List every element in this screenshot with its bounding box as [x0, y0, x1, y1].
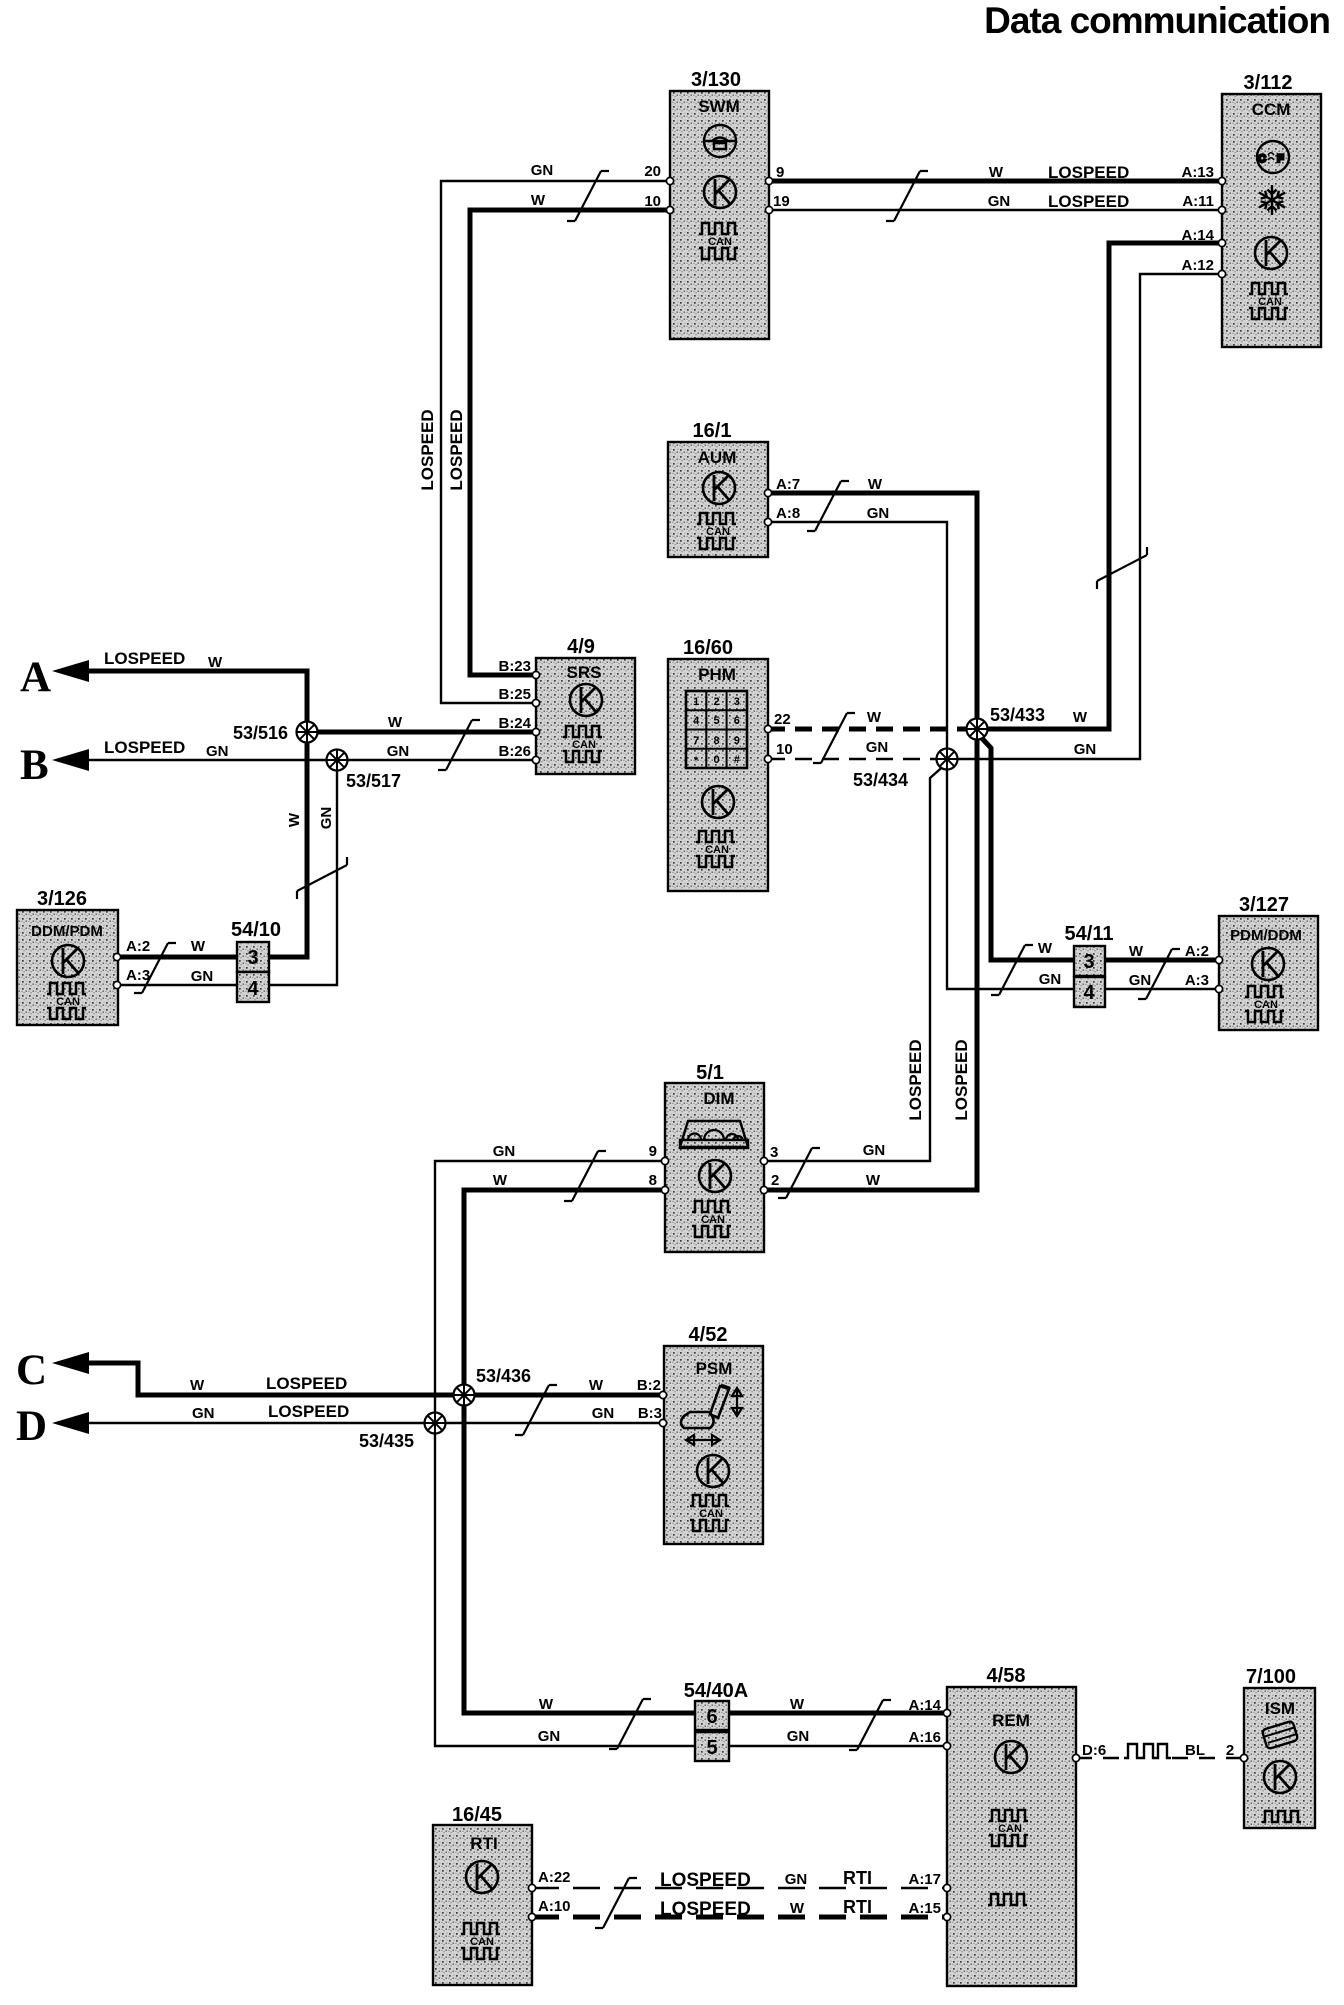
- svg-text:CAN: CAN: [470, 1936, 494, 1948]
- wire GN CCM:A12 to junction 53/434: [947, 274, 1222, 759]
- svg-text:A:3: A:3: [1185, 972, 1209, 989]
- wire W DDM:A2 to connector 54/10:3: [117, 955, 237, 960]
- svg-text:A:2: A:2: [126, 938, 150, 955]
- pin pads: [113, 177, 1247, 1920]
- svg-text:GN: GN: [988, 193, 1011, 210]
- wire GN AUM:A8 to junction 53/434 to connector 54/11:4: [768, 522, 1074, 989]
- svg-text:19: 19: [773, 193, 790, 210]
- svg-text:3/127: 3/127: [1239, 894, 1289, 916]
- svg-text:D: D: [16, 1403, 47, 1450]
- svg-text:GN: GN: [191, 968, 214, 985]
- wire W AUM:A7 to junction 53/433 to DIM:2: [764, 493, 977, 1190]
- cable marker on PHM dashed pair: [813, 713, 855, 763]
- svg-text:CAN: CAN: [701, 1214, 725, 1226]
- component REM 4/58 rear electronic module: [947, 1665, 1076, 1986]
- wire W junction 53/436 to connector 54/40A:6: [464, 1395, 695, 1713]
- svg-text:GN: GN: [318, 807, 335, 830]
- wire GN connector 54/11:4 to PDM:A3: [1104, 988, 1219, 990]
- junction 53/516: [297, 722, 318, 743]
- svg-text:54/40A: 54/40A: [684, 1680, 749, 1702]
- svg-text:20: 20: [644, 163, 661, 180]
- svg-text:6: 6: [734, 715, 740, 727]
- svg-text:2: 2: [1226, 1742, 1234, 1759]
- svg-text:7/100: 7/100: [1246, 1666, 1296, 1688]
- cable marker on PDM pair: [1138, 949, 1180, 999]
- svg-text:LOSPEED: LOSPEED: [660, 1899, 751, 1920]
- svg-text:LOSPEED: LOSPEED: [1048, 192, 1129, 211]
- svg-text:W: W: [493, 1172, 508, 1189]
- svg-text:D:6: D:6: [1082, 1742, 1106, 1759]
- svg-text:CAN: CAN: [706, 526, 730, 538]
- svg-text:7: 7: [693, 735, 699, 747]
- svg-text:A:8: A:8: [776, 505, 800, 522]
- wire W dashed PHM:22 to junction 53/433: [768, 727, 966, 732]
- junction 53/435: [425, 1413, 446, 1434]
- wire GN DIM:9 to junction 53/435: [435, 1161, 665, 1423]
- svg-text:A:17: A:17: [908, 1871, 941, 1888]
- connector 54/11: [1065, 923, 1114, 1007]
- svg-text:GN: GN: [867, 505, 890, 522]
- svg-text:A:10: A:10: [538, 1898, 571, 1915]
- wire GN connector 54/40A:5 to REM:A16: [729, 1745, 947, 1747]
- svg-text:A:15: A:15: [908, 1900, 941, 1917]
- wire W arrow A to junction 53/516: [86, 671, 307, 732]
- arrow A: [52, 660, 89, 682]
- svg-text:2: 2: [713, 696, 719, 708]
- svg-text:GN: GN: [387, 743, 410, 760]
- svg-text:GN: GN: [785, 1871, 808, 1888]
- svg-text:W: W: [589, 1377, 604, 1394]
- svg-text:4: 4: [1083, 982, 1095, 1004]
- wire W DIM:8 to junction 53/436: [464, 1190, 665, 1395]
- svg-text:GN: GN: [592, 1405, 615, 1422]
- svg-text:W: W: [790, 1696, 805, 1713]
- svg-text:#: #: [734, 754, 740, 766]
- svg-text:CAN: CAN: [705, 844, 729, 856]
- svg-text:DDM/PDM: DDM/PDM: [31, 923, 103, 940]
- svg-text:0: 0: [713, 754, 719, 766]
- svg-text:C: C: [16, 1347, 47, 1394]
- cable marker on DIM left pair: [564, 1151, 606, 1201]
- svg-text:GN: GN: [531, 162, 554, 179]
- component DIM 5/1 driver information module: [665, 1062, 764, 1252]
- svg-text:GN: GN: [866, 739, 889, 756]
- svg-text:Data communication: Data communication: [984, 0, 1330, 41]
- svg-text:AUM: AUM: [698, 448, 737, 467]
- junction 53/517: [327, 750, 348, 771]
- svg-text:W: W: [866, 1172, 881, 1189]
- junction 53/433: [967, 719, 988, 740]
- wire GN dashed RTI:A22 to REM:A17: [532, 1887, 947, 1889]
- svg-text:A:2: A:2: [1185, 943, 1209, 960]
- svg-text:53/435: 53/435: [359, 1431, 414, 1451]
- svg-text:CAN: CAN: [1258, 296, 1282, 308]
- cable marker on RTI dashed pair: [595, 1878, 637, 1928]
- wire W junction 53/436 to PSM:B2: [464, 1393, 663, 1398]
- component DDM 3/126 driver door module: [17, 888, 118, 1025]
- svg-text:A:3: A:3: [126, 967, 150, 984]
- component SRS 4/9 supplemental restraint module: [536, 636, 635, 774]
- svg-text:A:11: A:11: [1182, 193, 1214, 210]
- wire W junction 53/516 to SRS:B24: [307, 730, 536, 735]
- connector 54/10: [231, 919, 281, 1002]
- wire GN SWM:20 to SRS:B25: [441, 181, 670, 703]
- svg-text:*: *: [694, 755, 699, 767]
- svg-text:PHM: PHM: [698, 665, 736, 684]
- svg-text:W: W: [190, 1377, 205, 1394]
- svg-text:53/434: 53/434: [853, 770, 908, 790]
- svg-text:GN: GN: [206, 743, 229, 760]
- wire W junction 53/516 to connector 54/10:3: [268, 732, 307, 957]
- svg-text:A:13: A:13: [1181, 164, 1214, 181]
- wire GN LOSPEED SWM:19 to CCM:A11: [769, 209, 1222, 211]
- cable marker on DIM right pair: [778, 1148, 820, 1198]
- svg-text:F: F: [1277, 153, 1284, 165]
- component PSM 4/52 power seat module: [664, 1324, 763, 1544]
- svg-text:W: W: [388, 714, 403, 731]
- svg-text:9: 9: [649, 1143, 657, 1160]
- svg-text:4: 4: [693, 715, 700, 727]
- wire GN junction 53/517 to connector 54/10:4: [268, 760, 337, 985]
- svg-text:W: W: [790, 1900, 805, 1917]
- svg-text:DIM: DIM: [703, 1089, 734, 1108]
- svg-text:LOSPEED: LOSPEED: [104, 738, 185, 757]
- component RTI 16/45 road traffic information module: [433, 1804, 532, 1985]
- svg-text:A:14: A:14: [908, 1697, 941, 1714]
- svg-text:8: 8: [649, 1172, 657, 1189]
- wire GN junction 53/434 to DIM:3: [764, 763, 947, 1161]
- cable marker on DDM pair: [134, 943, 176, 993]
- svg-text:PSM: PSM: [696, 1359, 733, 1378]
- svg-text:GN: GN: [192, 1405, 215, 1422]
- svg-text:8: 8: [713, 735, 719, 747]
- svg-text:10: 10: [776, 741, 793, 758]
- svg-text:GN: GN: [538, 1728, 561, 1745]
- svg-text:B:24: B:24: [498, 715, 531, 732]
- svg-text:REM: REM: [992, 1711, 1030, 1730]
- svg-text:ISM: ISM: [1265, 1699, 1295, 1718]
- cable marker on 54/11 left pair: [991, 945, 1033, 995]
- component ISM 7/100 ignition switch module: [1244, 1666, 1315, 1828]
- svg-text:W: W: [191, 938, 206, 955]
- svg-text:GN: GN: [787, 1728, 810, 1745]
- svg-text:GN: GN: [1074, 741, 1097, 758]
- svg-text:GN: GN: [863, 1142, 886, 1159]
- svg-text:LOSPEED: LOSPEED: [952, 1039, 971, 1120]
- svg-text:B:3: B:3: [638, 1405, 662, 1422]
- svg-text:GN: GN: [1129, 972, 1152, 989]
- svg-text:W: W: [1129, 943, 1144, 960]
- cable marker on AUM pair: [807, 481, 849, 531]
- wire GN arrow B to junction 53/517: [86, 759, 337, 761]
- svg-text:GN: GN: [1039, 971, 1062, 988]
- svg-text:RTI: RTI: [843, 1897, 872, 1917]
- svg-text:W: W: [868, 476, 883, 493]
- svg-text:LOSPEED: LOSPEED: [104, 649, 185, 668]
- svg-text:10: 10: [644, 193, 661, 210]
- svg-text:2: 2: [771, 1172, 779, 1189]
- arrow B: [52, 749, 89, 771]
- svg-text:9: 9: [734, 735, 740, 747]
- svg-text:CAN: CAN: [56, 996, 80, 1008]
- svg-text:53/436: 53/436: [476, 1366, 531, 1386]
- wire GN junction 53/435 to connector 54/40A:5: [435, 1423, 695, 1746]
- wire W CCM:A14 to junction 53/433: [977, 243, 1222, 729]
- wire GN DDM:A3 to connector 54/10:4: [117, 984, 237, 986]
- junction 53/434: [937, 749, 958, 770]
- wire W connector 54/11:3 to PDM:A2: [1104, 958, 1219, 963]
- svg-text:54/10: 54/10: [231, 919, 281, 941]
- svg-text:CCM: CCM: [1252, 100, 1291, 119]
- component AUM 16/1 audio module: [668, 420, 768, 557]
- svg-text:4/52: 4/52: [689, 1324, 728, 1346]
- svg-text:B:26: B:26: [498, 743, 531, 760]
- svg-text:16/1: 16/1: [693, 420, 732, 442]
- component SWM 3/130 steering wheel module: [670, 69, 769, 339]
- wire BL dashed REM:D6 to ISM:2: [1076, 1757, 1120, 1759]
- wire W connector 54/40A:6 to REM:A14: [729, 1711, 947, 1716]
- connector 54/40A: [684, 1680, 749, 1761]
- svg-text:W: W: [1038, 940, 1053, 957]
- svg-text:54/11: 54/11: [1065, 923, 1114, 945]
- svg-text:CAN: CAN: [699, 1508, 723, 1520]
- cable marker on 54/40A right pair: [849, 1700, 891, 1750]
- svg-text:4/9: 4/9: [567, 636, 595, 658]
- svg-text:W: W: [1073, 709, 1088, 726]
- svg-text:53/517: 53/517: [346, 771, 401, 791]
- component PHM 16/60 phone module: [668, 637, 768, 891]
- svg-text:5: 5: [713, 715, 719, 727]
- svg-text:53/433: 53/433: [990, 705, 1045, 725]
- wire GN junction 53/435 to PSM:B3: [435, 1422, 663, 1424]
- junction 53/436: [454, 1385, 475, 1406]
- svg-text:6: 6: [706, 1706, 717, 1728]
- svg-text:CAN: CAN: [572, 739, 596, 751]
- wire W LOSPEED SWM:9 to CCM:A13: [769, 179, 1222, 184]
- svg-text:3/130: 3/130: [691, 69, 741, 91]
- svg-text:3: 3: [734, 696, 740, 708]
- svg-text:5: 5: [706, 1737, 717, 1759]
- component CCM 3/112 climate control module: [1222, 72, 1321, 347]
- svg-text:A:12: A:12: [1181, 257, 1214, 274]
- wire GN dashed PHM:10 to junction 53/434: [768, 758, 936, 760]
- svg-text:RTI: RTI: [843, 1868, 872, 1888]
- svg-text:LOSPEED: LOSPEED: [1048, 163, 1129, 182]
- svg-text:B:2: B:2: [637, 1377, 661, 1394]
- svg-text:W: W: [539, 1696, 554, 1713]
- svg-text:GN: GN: [493, 1143, 516, 1160]
- svg-text:W: W: [286, 812, 303, 827]
- svg-text:SRS: SRS: [567, 663, 602, 682]
- svg-text:CAN: CAN: [1254, 999, 1278, 1011]
- svg-text:A:22: A:22: [538, 1869, 571, 1886]
- svg-text:1: 1: [693, 696, 699, 708]
- cable marker on 54/40A left pair: [609, 1699, 651, 1749]
- svg-text:LOSPEED: LOSPEED: [268, 1402, 349, 1421]
- svg-text:W: W: [531, 192, 546, 209]
- svg-text:53/516: 53/516: [233, 723, 288, 743]
- svg-text:LOSPEED: LOSPEED: [418, 409, 437, 490]
- svg-text:A:7: A:7: [776, 476, 800, 493]
- svg-text:3: 3: [770, 1144, 778, 1161]
- component PDM 3/127 passenger door module: [1219, 894, 1318, 1030]
- svg-text:SWM: SWM: [698, 97, 740, 116]
- svg-text:A:16: A:16: [908, 1729, 941, 1746]
- wire W dashed RTI:A10 to REM:A15: [532, 1915, 947, 1920]
- wire GN arrow D to junction 53/435: [86, 1422, 435, 1424]
- svg-text:4: 4: [247, 978, 259, 1000]
- svg-text:5/1: 5/1: [696, 1062, 724, 1084]
- svg-text:RTI: RTI: [470, 1834, 497, 1853]
- svg-text:C: C: [1258, 153, 1266, 165]
- svg-text:3: 3: [1083, 951, 1094, 973]
- wire GN junction 53/517 to SRS:B26: [337, 759, 536, 761]
- svg-text:W: W: [867, 709, 882, 726]
- svg-text:W: W: [989, 164, 1004, 181]
- svg-text:22: 22: [774, 711, 791, 728]
- svg-text:B:25: B:25: [498, 686, 531, 703]
- svg-text:LOSPEED: LOSPEED: [660, 1870, 751, 1891]
- arrow C: [52, 1352, 89, 1374]
- svg-text:3/126: 3/126: [37, 888, 87, 910]
- svg-text:16/45: 16/45: [452, 1804, 502, 1826]
- svg-text:CAN: CAN: [998, 1823, 1022, 1835]
- cable marker on W/GN verticals above 54/10: [297, 857, 347, 899]
- svg-text:4/58: 4/58: [987, 1665, 1026, 1687]
- wire W arrow C to junction 53/436: [86, 1363, 464, 1395]
- svg-text:BL: BL: [1185, 1742, 1205, 1759]
- svg-text:LOSPEED: LOSPEED: [266, 1374, 347, 1393]
- svg-text:CAN: CAN: [708, 236, 732, 248]
- svg-text:W: W: [208, 654, 223, 671]
- pulse symbol on BL wire: [1124, 1744, 1171, 1758]
- svg-text:B: B: [20, 742, 49, 789]
- cable marker on SWM left pair: [567, 171, 609, 221]
- svg-text:PDM/DDM: PDM/DDM: [1230, 927, 1302, 944]
- svg-text:3/112: 3/112: [1244, 72, 1293, 94]
- wire W junction 53/433 to connector 54/11:3: [977, 733, 1074, 960]
- svg-text:16/60: 16/60: [683, 637, 733, 659]
- arrow D: [52, 1412, 89, 1434]
- cable marker on SWM-CCM pair: [886, 171, 928, 221]
- svg-text:B:23: B:23: [498, 658, 531, 675]
- cable marker on CCM vertical pair: [1097, 547, 1147, 589]
- svg-text:A:14: A:14: [1181, 227, 1214, 244]
- svg-text:LOSPEED: LOSPEED: [447, 409, 466, 490]
- cable marker on SRS B:24/B:26 pair: [438, 720, 480, 770]
- svg-text:LOSPEED: LOSPEED: [906, 1039, 925, 1120]
- svg-text:A: A: [20, 654, 51, 701]
- wire W SWM:10 to SRS:B23: [470, 210, 670, 675]
- svg-text:3: 3: [247, 947, 258, 969]
- svg-text:9: 9: [776, 164, 784, 181]
- cable marker on PSM pair: [515, 1385, 557, 1435]
